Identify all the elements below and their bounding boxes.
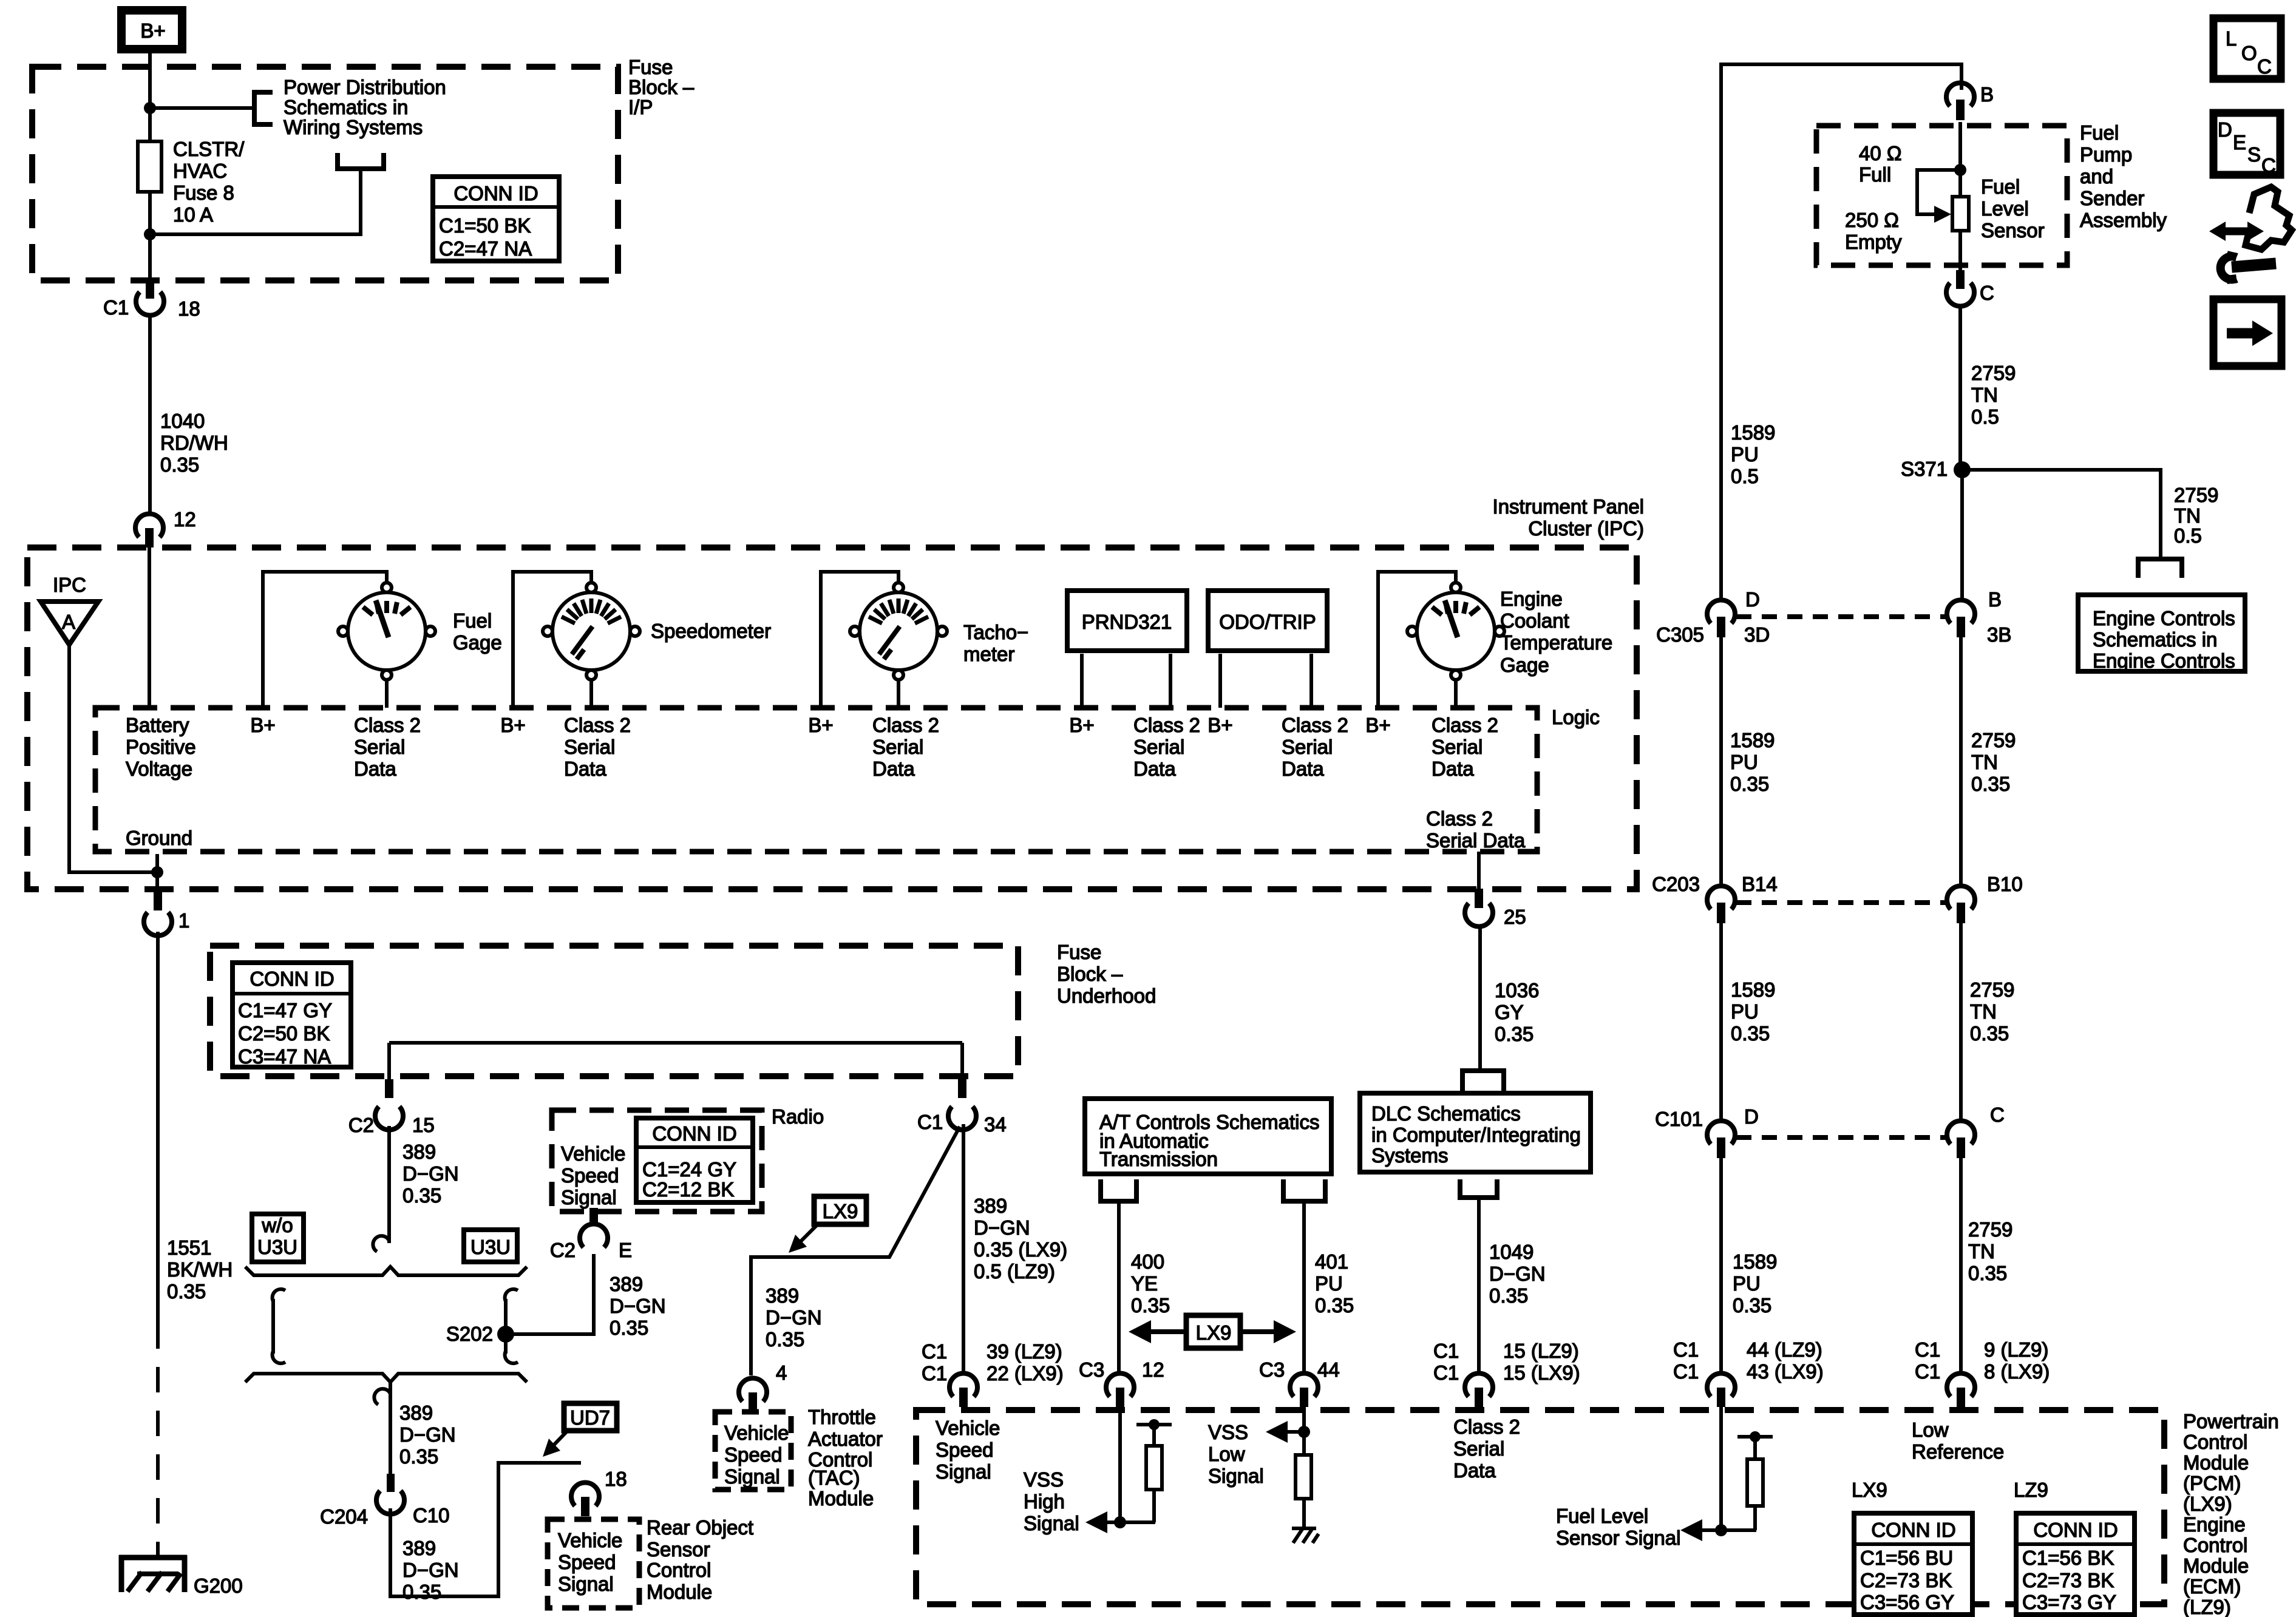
svg-text:C1=56 BK: C1=56 BK [2022, 1547, 2114, 1569]
svg-text:B+: B+ [1365, 714, 1390, 736]
svg-text:LX9: LX9 [1852, 1479, 1887, 1501]
svg-text:Underhood: Underhood [1057, 985, 1156, 1007]
connector C2 pin 15 [348, 1079, 435, 1136]
resistor VSS low [1296, 1455, 1311, 1528]
svg-text:Fuse 8: Fuse 8 [173, 181, 234, 204]
powertrain control module dashed box [916, 1410, 2164, 1604]
svg-text:400: 400 [1131, 1250, 1164, 1273]
svg-text:9 (LZ9): 9 (LZ9) [1984, 1338, 2048, 1361]
connector C305 pin D 3D [1656, 588, 1770, 646]
instrument panel cluster dashed box [27, 547, 1637, 889]
svg-text:Data: Data [564, 758, 606, 780]
svg-text:D−GN: D−GN [610, 1295, 666, 1317]
CONN ID table (fuse block I/P) [430, 177, 562, 261]
wire ECT gage serial data [1454, 680, 1458, 708]
IPC ground triangle A [41, 602, 98, 645]
svg-text:C: C [1980, 282, 1994, 304]
connector link C203 [1736, 900, 1946, 905]
LZ9 CONN ID table [2014, 1479, 2137, 1615]
connector pin 25 (IPC) [1465, 889, 1526, 928]
junction node fuel level [1715, 1524, 1727, 1536]
svg-text:D−GN: D−GN [974, 1216, 1030, 1239]
svg-text:D−GN: D−GN [402, 1162, 459, 1185]
svg-text:C3=73 GY: C3=73 GY [2022, 1591, 2116, 1613]
wire VSS low arrow line [1285, 1430, 1304, 1434]
svg-text:B10: B10 [1987, 873, 2023, 895]
svg-text:Powertrain: Powertrain [2183, 1410, 2279, 1432]
svg-text:Fuse: Fuse [628, 56, 673, 78]
svg-text:Battery: Battery [126, 714, 189, 736]
pin label Vehicle Speed Signal (radio) [561, 1142, 625, 1209]
svg-text:Temperature: Temperature [1500, 631, 1612, 654]
label 1589 PU 0.35 (middle) [1731, 978, 1775, 1045]
svg-text:18: 18 [178, 297, 200, 320]
svg-text:S202: S202 [446, 1323, 493, 1345]
svg-text:PU: PU [1731, 443, 1759, 466]
connector PCM fuel level pin [1707, 1374, 1735, 1407]
connector PCM pin 12 [1106, 1374, 1134, 1407]
svg-text:15 (LZ9): 15 (LZ9) [1503, 1340, 1579, 1362]
svg-text:Radio: Radio [772, 1105, 824, 1128]
svg-text:Pump: Pump [2080, 143, 2132, 166]
harness option brace top [245, 1267, 527, 1275]
wire PRND321 serial data [1169, 654, 1172, 708]
wire top loop 1589 PU to fuel pump [1721, 64, 1961, 600]
wire fuel level sensor vertical [1958, 122, 1962, 197]
svg-text:Sensor: Sensor [647, 1538, 710, 1561]
label 1589 PU 0.35 (lower) [1733, 1250, 1777, 1317]
svg-text:Engine Controls: Engine Controls [2093, 649, 2235, 672]
wire 2759 TN C101-PCM [1959, 1158, 1963, 1374]
connector pin B (fuel pump) [1946, 83, 1994, 120]
svg-text:Speed: Speed [724, 1443, 782, 1466]
svg-text:Sender: Sender [2080, 187, 2144, 209]
wire fuel gage serial data [385, 680, 389, 708]
svg-text:389: 389 [402, 1141, 436, 1163]
pin label C1 C1 (fuel level) [1673, 1338, 1699, 1383]
off-page bracket under text [338, 153, 384, 169]
svg-text:D−GN: D−GN [1489, 1263, 1546, 1285]
svg-text:Serial: Serial [1453, 1437, 1504, 1460]
label Instrument Panel Cluster (IPC) [1493, 495, 1644, 540]
svg-text:Power Distribution: Power Distribution [284, 76, 446, 98]
connector C305 pin B 3B [1947, 588, 2011, 646]
svg-text:1040: 1040 [160, 410, 205, 432]
svg-text:TN: TN [1968, 1240, 1995, 1263]
svg-text:0.35: 0.35 [1971, 773, 2010, 795]
UD7 flag with arrow [543, 1403, 617, 1457]
svg-text:O: O [2241, 42, 2257, 64]
svg-text:44 (LZ9): 44 (LZ9) [1747, 1338, 1822, 1361]
svg-text:C2=50 BK: C2=50 BK [238, 1022, 330, 1045]
svg-text:Serial: Serial [1133, 736, 1184, 758]
junction node ground [151, 866, 163, 878]
svg-text:Block –: Block – [1057, 963, 1123, 985]
engine coolant temperature gage [1407, 583, 1504, 680]
svg-text:PRND321: PRND321 [1082, 611, 1172, 633]
B+ battery terminal box [121, 10, 182, 49]
svg-text:C3=56 GY: C3=56 GY [1860, 1591, 1954, 1613]
svg-text:0.35: 0.35 [1315, 1294, 1354, 1317]
wire 400 YE [1117, 1201, 1121, 1374]
svg-text:(LZ9): (LZ9) [2183, 1596, 2231, 1617]
svg-text:PU: PU [1733, 1272, 1761, 1295]
svg-text:B+: B+ [500, 714, 525, 736]
wire S371 down to B connector [1960, 470, 1964, 602]
pin label Class 2 Serial Data (fuel) [354, 714, 421, 780]
svg-text:B+: B+ [250, 714, 275, 736]
svg-text:D−GN: D−GN [766, 1306, 822, 1329]
svg-text:PU: PU [1730, 751, 1758, 773]
pin label C1 C1 (low reference) [1915, 1338, 1940, 1383]
svg-text:0.35: 0.35 [1730, 773, 1769, 795]
svg-text:LX9: LX9 [823, 1200, 858, 1222]
connector C203 pin B10 [1947, 873, 2023, 923]
pin label 39 (LZ9) 22 (LX9) [987, 1340, 1064, 1385]
wire speedometer serial data [589, 680, 593, 708]
wire drop to C2 [387, 1043, 391, 1080]
svg-text:Engine: Engine [2183, 1513, 2246, 1536]
off-page bracket out of A/T (right) [1283, 1179, 1325, 1201]
harness option brace bottom [245, 1374, 527, 1382]
svg-text:E: E [619, 1239, 632, 1261]
svg-text:22 (LX9): 22 (LX9) [987, 1362, 1064, 1385]
fuel pump and sender dashed box [1816, 126, 2067, 265]
svg-text:Speed: Speed [558, 1551, 616, 1573]
svg-text:Data: Data [1133, 758, 1176, 780]
svg-text:39 (LZ9): 39 (LZ9) [987, 1340, 1062, 1363]
wire ground pin drop [155, 854, 159, 892]
connector PCM class 2 pin [1465, 1374, 1493, 1407]
svg-text:C2: C2 [348, 1114, 374, 1136]
wire stub U3U option [505, 1289, 518, 1363]
fuel gage [338, 583, 435, 680]
connector C1 pin 34 [917, 1079, 1007, 1136]
wire PRND321 B+ [1080, 654, 1084, 708]
pin label Class 2 Serial Data (ECT) [1432, 714, 1498, 780]
svg-text:C: C [1990, 1103, 2005, 1126]
LX9 CONN ID table [1852, 1479, 1975, 1615]
pin label Vehicle Speed Signal (ROS) [558, 1529, 622, 1595]
svg-text:0.5: 0.5 [2174, 524, 2202, 547]
svg-text:A: A [62, 611, 75, 633]
CONN ID table (radio) [634, 1118, 755, 1202]
svg-text:0.35: 0.35 [160, 453, 199, 476]
svg-text:Module: Module [2183, 1554, 2249, 1577]
svg-text:Voltage: Voltage [126, 758, 192, 780]
wire 1589 PU C203-C101 [1719, 923, 1723, 1121]
svg-text:G200: G200 [194, 1575, 243, 1597]
svg-text:Tacho−: Tacho− [963, 621, 1028, 643]
label 1589 PU 0.35 (upper) [1730, 729, 1775, 795]
IPC logic inner dashed box [95, 708, 1537, 852]
svg-text:389: 389 [399, 1402, 433, 1424]
pin label Class 2 Serial Data (tachometer) [872, 714, 939, 780]
arrowhead VSS high [1085, 1511, 1107, 1533]
svg-text:Serial: Serial [1432, 736, 1483, 758]
svg-text:1589: 1589 [1733, 1250, 1777, 1273]
junction node VSS low [1298, 1426, 1310, 1438]
LX9 flag with arrow [789, 1196, 866, 1253]
svg-text:0.35: 0.35 [1495, 1023, 1533, 1045]
svg-text:1049: 1049 [1489, 1241, 1533, 1263]
pin label Class 2 Serial Data (logic out) [1426, 807, 1526, 852]
svg-text:LZ9: LZ9 [2014, 1479, 2048, 1501]
svg-text:DLC Schematics: DLC Schematics [1371, 1102, 1521, 1125]
pin label Class 2 Serial Data (PRND321) [1133, 714, 1200, 780]
svg-text:CONN ID: CONN ID [1871, 1519, 1955, 1541]
wire C204 to rear object sensor [390, 1463, 581, 1596]
svg-text:D: D [1745, 588, 1760, 611]
connector C101 pin C [1947, 1103, 2005, 1158]
svg-text:Signal: Signal [1024, 1512, 1079, 1534]
connector pin 18 (ROS) [571, 1468, 627, 1516]
DESC icon box [2213, 113, 2280, 177]
pin label Class 2 Serial Data (speedometer) [564, 714, 631, 780]
svg-text:Control: Control [647, 1559, 711, 1581]
svg-text:Sensor: Sensor [1981, 219, 2045, 242]
label Power Distribution Schematics in Wiring Systems [284, 76, 446, 138]
label VSS High Signal [1024, 1468, 1079, 1534]
wire 389 vertical to PCM [962, 1124, 965, 1373]
svg-text:Level: Level [1981, 197, 2029, 220]
svg-text:VSS: VSS [1024, 1468, 1064, 1491]
svg-text:C1=56 BU: C1=56 BU [1860, 1547, 1953, 1569]
svg-text:Serial: Serial [354, 736, 405, 758]
svg-text:Module: Module [647, 1581, 712, 1603]
svg-text:C203: C203 [1652, 873, 1700, 895]
svg-text:Low: Low [1912, 1419, 1949, 1441]
svg-text:C1: C1 [1673, 1338, 1699, 1361]
label 389 D-GN 0.35 (ROS branch) [402, 1537, 459, 1603]
svg-text:U3U: U3U [470, 1236, 511, 1258]
radio dashed box [552, 1110, 762, 1212]
svg-text:C: C [2257, 55, 2272, 78]
wire underhood feed horizontal [389, 1041, 962, 1045]
wire ODO/TRIP serial data [1309, 654, 1313, 708]
svg-text:TN: TN [1971, 384, 1998, 406]
ground G200 [119, 1555, 243, 1597]
CONN ID table (underhood) [230, 963, 353, 1068]
wire stub w/o U3U option [273, 1289, 285, 1363]
tachometer [850, 583, 947, 680]
svg-text:C1: C1 [1915, 1338, 1940, 1361]
svg-text:High: High [1024, 1490, 1065, 1513]
svg-text:Data: Data [1453, 1459, 1496, 1482]
svg-text:C1: C1 [1915, 1360, 1940, 1383]
svg-text:D−GN: D−GN [399, 1423, 456, 1446]
label 1049 D-GN 0.35 [1489, 1241, 1546, 1307]
svg-text:C1=50 BK: C1=50 BK [439, 214, 531, 237]
svg-text:0.35: 0.35 [766, 1328, 804, 1351]
svg-text:(PCM): (PCM) [2183, 1472, 2241, 1494]
svg-text:0.35: 0.35 [399, 1445, 438, 1468]
wire tachometer B+ [821, 572, 898, 708]
svg-text:25: 25 [1504, 906, 1526, 928]
svg-text:C1: C1 [1433, 1340, 1459, 1362]
wire radio VSS to S202 [508, 1254, 594, 1334]
wire 1036 GY to DLC [1478, 926, 1482, 1071]
connector C1 pin 18 [103, 279, 200, 320]
svg-text:Signal: Signal [561, 1186, 617, 1209]
svg-text:B14: B14 [1742, 873, 1778, 895]
pin label 9 (LZ9) 8 (LX9) [1984, 1338, 2050, 1383]
label VSS Low Signal [1208, 1421, 1264, 1487]
wire fuel level arrow line [1700, 1528, 1756, 1532]
off-page bracket into DLC [1462, 1071, 1504, 1091]
svg-text:Serial: Serial [564, 736, 615, 758]
svg-text:Class 2: Class 2 [1426, 807, 1493, 830]
label 401 PU 0.35 [1315, 1250, 1354, 1317]
label 389 D-GN 0.35 (C2 branch) [402, 1141, 459, 1207]
label 389 D-GN 0.35 (radio branch) [610, 1273, 666, 1339]
svg-text:(ECM): (ECM) [2183, 1575, 2241, 1598]
svg-text:40 Ω: 40 Ω [1859, 142, 1902, 164]
svg-text:8 (LX9): 8 (LX9) [1984, 1360, 2050, 1383]
speedometer [543, 583, 640, 680]
splice S202 [446, 1323, 514, 1345]
svg-text:2759: 2759 [1971, 729, 2016, 751]
TAC vehicle speed signal dashed box [715, 1412, 791, 1490]
svg-text:Speed: Speed [561, 1164, 619, 1187]
wire 401 PU [1302, 1201, 1306, 1374]
svg-text:Fuse: Fuse [1057, 941, 1101, 963]
off-page bracket out of A/T (left) [1101, 1179, 1136, 1201]
wire sensor to C [1958, 231, 1962, 273]
svg-text:ODO/TRIP: ODO/TRIP [1219, 611, 1316, 633]
svg-text:Assembly: Assembly [2080, 209, 2167, 231]
svg-text:Engine: Engine [1500, 588, 1563, 610]
pin label Battery Positive Voltage [126, 714, 196, 780]
svg-text:Vehicle: Vehicle [558, 1529, 622, 1551]
svg-text:(TAC): (TAC) [808, 1466, 860, 1489]
label Fuel Pump and Sender Assembly [2080, 121, 2167, 231]
svg-text:Fuel: Fuel [1981, 175, 2020, 198]
svg-text:CONN ID: CONN ID [453, 182, 538, 205]
wire ground from triangle [69, 645, 157, 872]
svg-text:S: S [2247, 143, 2261, 166]
svg-text:Signal: Signal [724, 1465, 780, 1488]
svg-text:Rear Object: Rear Object [647, 1516, 753, 1539]
svg-text:Empty: Empty [1845, 231, 1902, 253]
svg-text:B+: B+ [1207, 714, 1232, 736]
svg-text:IPC: IPC [53, 574, 86, 596]
off-page bracket out of DLC [1460, 1179, 1497, 1198]
svg-text:Throttle: Throttle [808, 1406, 876, 1428]
label Rear Object Sensor Control Module [647, 1516, 753, 1603]
label Fuel Gage [453, 609, 502, 654]
svg-text:C3: C3 [1259, 1358, 1285, 1381]
svg-text:Class 2: Class 2 [1133, 714, 1200, 736]
svg-text:1: 1 [178, 909, 189, 932]
svg-text:Engine Controls: Engine Controls [2093, 607, 2235, 629]
wire battery feed into IPC [148, 547, 151, 708]
svg-text:C1=24 GY: C1=24 GY [642, 1158, 736, 1181]
wire 2759 TN C305-C203 [1959, 637, 1963, 886]
svg-text:PU: PU [1315, 1272, 1343, 1295]
svg-text:HVAC: HVAC [173, 160, 227, 182]
svg-text:389: 389 [974, 1195, 1007, 1217]
connector link C305 [1736, 614, 1946, 619]
label 389 D-GN 0.35 (TAC branch) [766, 1284, 822, 1351]
U3U option box [464, 1230, 517, 1262]
svg-text:D−GN: D−GN [402, 1559, 459, 1581]
connector C203 pin B14 [1652, 873, 1778, 923]
svg-text:0.35: 0.35 [1970, 1022, 2009, 1045]
PRND321 display box [1067, 591, 1187, 651]
wire 1551 solid part [156, 932, 160, 1323]
svg-text:B: B [1988, 588, 2002, 611]
svg-text:2759: 2759 [1970, 978, 2014, 1001]
svg-text:Module: Module [2183, 1451, 2249, 1474]
wire VSS high arrow line [1105, 1520, 1155, 1524]
label 250 ohm Empty [1845, 209, 1902, 253]
svg-text:Class 2: Class 2 [564, 714, 631, 736]
svg-text:PU: PU [1731, 1000, 1759, 1023]
svg-text:LX9: LX9 [1196, 1321, 1232, 1344]
svg-text:Data: Data [354, 758, 396, 780]
svg-text:(LX9): (LX9) [2183, 1493, 2232, 1515]
label Tachometer [963, 621, 1028, 665]
wire fuel gage B+ [263, 572, 387, 708]
wire speedometer B+ [513, 572, 591, 708]
wire end hook (below brace) [374, 1389, 390, 1405]
svg-text:0.35: 0.35 [1731, 1022, 1770, 1045]
svg-text:C2: C2 [550, 1239, 576, 1261]
fuse block underhood dashed box [210, 946, 1018, 1076]
pin label C3 12 [1079, 1358, 1164, 1381]
wire 389 to splice options [387, 1126, 391, 1243]
svg-text:Fuel Level: Fuel Level [1556, 1505, 1648, 1527]
svg-text:UD7: UD7 [570, 1406, 610, 1429]
svg-text:C2=73 BK: C2=73 BK [2022, 1569, 2114, 1592]
label Engine Coolant Temperature Gage [1500, 588, 1612, 676]
label 1551 BK/WH 0.35 [167, 1236, 233, 1303]
splice S371 [1901, 458, 1971, 480]
wire 1049 D-GN [1477, 1198, 1481, 1374]
LOC icon box [2213, 18, 2281, 79]
svg-text:TN: TN [1970, 1000, 1997, 1023]
svg-text:Class 2: Class 2 [354, 714, 421, 736]
svg-text:2759: 2759 [2174, 484, 2218, 506]
connector PCM vehicle speed pin [949, 1374, 977, 1407]
svg-text:0.35: 0.35 [402, 1581, 441, 1603]
fuse CLSTR/HVAC Fuse 8 [138, 141, 161, 192]
wire class 2 serial data out of logic [1477, 852, 1481, 890]
svg-text:Schematics in: Schematics in [284, 96, 408, 118]
ODO/TRIP display box [1208, 591, 1327, 651]
wire to power distribution reference [150, 106, 254, 110]
svg-text:Full: Full [1859, 163, 1891, 186]
wire 1589 PU C305-C203 [1719, 637, 1723, 886]
svg-text:0.5 (LZ9): 0.5 (LZ9) [974, 1260, 1055, 1283]
label Fuse Block - I/P [628, 56, 695, 118]
wire 1040 [148, 315, 152, 514]
pin label Class 2 Serial Data (PCM) [1453, 1415, 1520, 1482]
label 389 D-GN 0.35 (LX9) 0.5 (LZ9) [974, 1195, 1067, 1283]
svg-text:4: 4 [776, 1361, 787, 1384]
svg-text:CONN ID: CONN ID [652, 1122, 736, 1145]
arrowhead fuel level [1680, 1519, 1702, 1541]
svg-text:0.35: 0.35 [1968, 1262, 2007, 1284]
connector pin C (fuel pump) [1946, 270, 1994, 306]
DLC schematics box [1360, 1093, 1591, 1172]
svg-text:C2=47 NA: C2=47 NA [439, 237, 532, 260]
connector C2 pin E (radio) [550, 1208, 632, 1261]
svg-text:0.35: 0.35 [1733, 1294, 1771, 1317]
svg-text:meter: meter [963, 643, 1014, 665]
svg-text:B+: B+ [1069, 714, 1094, 736]
